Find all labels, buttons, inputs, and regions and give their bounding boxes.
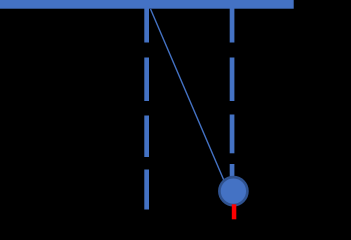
dashed vertical line 1 (left reference position) bbox=[144, 8, 149, 210]
dashed vertical line 2 (equilibrium position above bob) bbox=[230, 8, 235, 177]
red marker line below bob bbox=[232, 204, 237, 219]
ceiling support bar bbox=[0, 0, 294, 9]
pendulum string (thin diagonal line) bbox=[151, 9, 231, 195]
pendulum bob (blue circle) bbox=[219, 177, 247, 205]
